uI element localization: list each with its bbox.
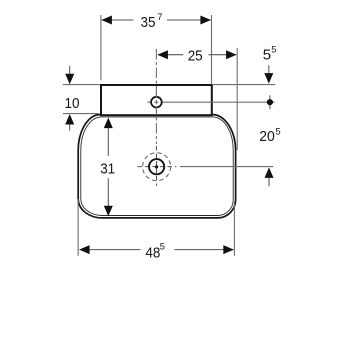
basin inner rim (81, 117, 233, 216)
svg-text:20: 20 (259, 128, 275, 145)
faucet horizontal center line (147, 101, 151, 103)
dim 48.5 line (80, 249, 141, 251)
vertical center line (155, 49, 157, 144)
dim 25 arrows (157, 50, 168, 59)
svg-text:5: 5 (160, 241, 165, 251)
drain outlet circle (149, 159, 164, 174)
drain vertical dashed line (156, 146, 158, 186)
dim 48.5 extension lines (77, 199, 79, 256)
dim 20.5 arrow (up) (265, 167, 274, 178)
dim 35.7 line (101, 19, 133, 21)
basin outer contour (78, 115, 235, 218)
dim 25 extension line (236, 48, 238, 150)
dim 25 line (158, 54, 183, 56)
dim 5.5 dot marker (269, 95, 271, 109)
dim 31 line (107, 128, 109, 156)
dim 10 reference lines (63, 84, 100, 86)
svg-text:5: 5 (275, 126, 280, 137)
drain dashed circle (143, 153, 171, 181)
dim 5.5 arrow (down) (268, 65, 270, 74)
svg-text:25: 25 (188, 47, 203, 64)
dim 48.5 arrows (79, 245, 90, 254)
dim 10 arrows (69, 66, 71, 75)
dim 31 arrows (104, 118, 113, 129)
svg-text:48: 48 (145, 245, 160, 262)
dim 35.7 arrows (101, 16, 112, 25)
drain line extension (right) (180, 166, 273, 168)
svg-text:35: 35 (141, 14, 156, 31)
tap deck (ledge) (101, 85, 212, 115)
svg-text:10: 10 (65, 95, 80, 112)
faucet hole (151, 97, 162, 108)
svg-text:7: 7 (157, 12, 162, 22)
drain horizontal dashed line (137, 166, 176, 168)
svg-text:5: 5 (263, 47, 271, 64)
svg-text:5: 5 (271, 44, 276, 54)
ledge top extension line (right) (213, 84, 275, 86)
svg-text:31: 31 (100, 161, 115, 178)
drain center dot (155, 165, 158, 168)
dim 35.7 extension lines (100, 15, 102, 80)
